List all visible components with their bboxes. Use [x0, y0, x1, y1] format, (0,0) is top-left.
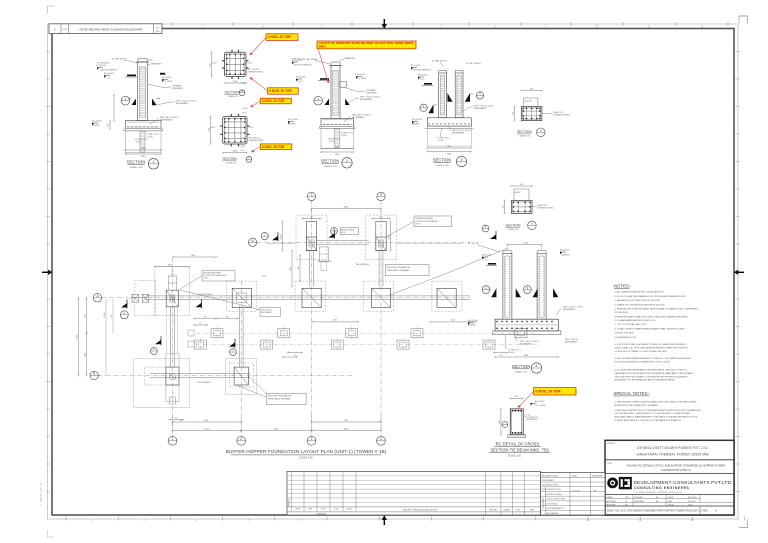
svg-text:EL(-)0.350: EL(-)0.350 — [482, 255, 492, 257]
svg-text:8-12-2011: 8-12-2011 — [688, 501, 696, 503]
svg-text:(TYP.): (TYP.) — [415, 224, 421, 226]
section 1 detail — [138, 62, 148, 121]
svg-text:(ALTERNATE): (ALTERNATE) — [352, 116, 364, 119]
svg-text:150: 150 — [171, 270, 174, 272]
svg-text:EL(-)0.600: EL(-)0.600 — [296, 77, 306, 79]
section 6 twin-wall detail — [503, 254, 512, 320]
svg-text:1500: 1500 — [344, 420, 348, 422]
svg-text:TO CLEAR EMBEDMENTS/POCKETS ET: TO CLEAR EMBEDMENTS/POCKETS ETC. — [615, 319, 657, 322]
foundation F1 at grid1/A — [155, 267, 190, 316]
svg-text:SCALE 1:25: SCALE 1:25 — [515, 370, 528, 373]
svg-text:(100 THK WRE FILL): (100 THK WRE FILL) — [413, 70, 431, 72]
svg-text:FOUNDATION (UNIT-1): FOUNDATION (UNIT-1) — [661, 468, 690, 472]
section 4 stirrup detail — [521, 106, 542, 120]
revision history table — [287, 472, 541, 516]
svg-text:APPROVED: APPROVED — [635, 500, 645, 503]
svg-text:(500): (500) — [233, 151, 238, 153]
svg-text:LAYOUT OF STIRRUPS TO BE REVIS: LAYOUT OF STIRRUPS TO BE REVISED TO SUIT… — [319, 41, 414, 45]
foundation at grid4/A — [363, 281, 393, 311]
svg-text:6. REINFORCEMENT SHALL BE LOC: 6. REINFORCEMENT SHALL BE LOCALLY ADJUST… — [615, 316, 689, 319]
svg-text:SHEAR KEY: SHEAR KEY — [151, 63, 163, 66]
svg-text:(TYP.): (TYP.) — [203, 278, 209, 280]
svg-text:STIRRUPS (S/W): STIRRUPS (S/W) — [249, 140, 264, 142]
svg-text:1: 1 — [153, 160, 155, 164]
svg-text:SCALE 1:100: SCALE 1:100 — [323, 165, 337, 168]
svg-text:2. BEFORE CONSTRUCTION OF THE: 2. BEFORE CONSTRUCTION OF THE NEW BUFFER… — [615, 409, 702, 412]
svg-text:MECH: MECH — [295, 509, 301, 511]
svg-text:2: 2 — [346, 159, 348, 163]
svg-text:11. POCKETS AS SHOWN ARE TO BE: 11. POCKETS AS SHOWN ARE TO BE KEPT WHIL… — [615, 369, 689, 372]
svg-text:EL(-)1.050: EL(-)1.050 — [292, 60, 302, 62]
svg-text:MECHANICAL: MECHANICAL — [547, 512, 559, 515]
svg-text:3: 3 — [461, 158, 463, 162]
svg-text:2 NOS. 20 TOR: 2 NOS. 20 TOR — [262, 99, 285, 103]
central cluster pads — [211, 329, 223, 338]
svg-text:B: B — [93, 372, 95, 376]
foundation at grid2/B — [226, 359, 257, 395]
svg-text:(BGWG): (BGWG) — [288, 123, 296, 125]
svg-text:DRAWN: DRAWN — [607, 496, 614, 499]
svg-text:1500: 1500 — [204, 420, 208, 422]
svg-text:07-03-2012: 07-03-2012 — [572, 491, 581, 493]
svg-text:2 NOS. 20 TOR: 2 NOS. 20 TOR — [268, 35, 292, 39]
svg-text:SECTION: SECTION — [512, 364, 531, 369]
svg-text:7. LLF = TO 9-104 AT GRID (TY: 7. LLF = TO 9-104 AT GRID (TYP.) — [615, 323, 647, 326]
svg-text:ALIGNMENT OF THE SHEAR KEY BEL: ALIGNMENT OF THE SHEAR KEY BELOW THE BAS… — [615, 379, 676, 382]
svg-text:500: 500 — [298, 267, 300, 270]
svg-text:(ALTERNATE): (ALTERNATE) — [176, 102, 188, 105]
svg-text:EL(-)0.600: EL(-)0.600 — [104, 73, 114, 75]
section 3 twin-column detail — [439, 73, 447, 118]
svg-text:SECTION TIE BEAM WKD. TB1: SECTION TIE BEAM WKD. TB1 — [490, 448, 549, 453]
svg-text:1. THE EXISTING TOWER CAGE FO: 1. THE EXISTING TOWER CAGE FOUNDATION AT… — [615, 401, 697, 404]
svg-text:90 ELLELV.209M WHICH CORRESPON: 90 ELLELV.209M WHICH CORRESPONDS TO P.L.… — [615, 362, 671, 364]
svg-text:KOLKATA MUMBAI CHENNAI: KOLKATA MUMBAI CHENNAI NEW DELHI — [634, 491, 682, 494]
svg-text:W.O. EPL/4/NEW POWER/BUFFER HO: W.O. EPL/4/NEW POWER/BUFFER HOPPER TOWER… — [621, 509, 702, 513]
svg-text:NOTED RED REV. READY FOUNDATIO: NOTED RED REV. READY FOUNDATIONS MODIFIE… — [79, 28, 142, 32]
svg-text:INSTRUMENTATION: INSTRUMENTATION — [547, 507, 565, 510]
svg-text:P.C.C.: P.C.C. — [106, 78, 112, 80]
svg-text:SCALE 1:20: SCALE 1:20 — [508, 455, 522, 458]
svg-text:(BGWG): (BGWG) — [412, 123, 420, 125]
svg-text:(1:4:8): (1:4:8) — [136, 141, 142, 143]
svg-text:(ALTERNATE): (ALTERNATE) — [160, 118, 172, 121]
svg-text:FOR TENDER ONLY: FOR TENDER ONLY — [542, 485, 560, 487]
svg-text:EXISTING FOUNDATION: EXISTING FOUNDATION — [268, 395, 292, 398]
svg-text:RELEASE STATUS: RELEASE STATUS — [542, 474, 559, 477]
svg-text:11005: 11005 — [688, 504, 693, 506]
svg-text:REV.: REV. — [517, 509, 521, 511]
svg-text:2-#8: 2-#8 — [241, 150, 245, 152]
svg-text:CHECKED: CHECKED — [635, 497, 644, 499]
svg-text:EXISTING FOUNDATION: EXISTING FOUNDATION — [387, 266, 411, 269]
svg-text:(600): (600) — [168, 265, 173, 267]
upper pedestal group grid3 — [312, 208, 382, 210]
svg-text:EL(-)2.000: EL(-)2.000 — [288, 119, 298, 121]
svg-text:DRAWN: DRAWN — [504, 508, 511, 511]
svg-text:450: 450 — [503, 206, 505, 209]
svg-text:STIRRUPS (S/W): STIRRUPS (S/W) — [554, 115, 570, 117]
svg-text:SCALE 1:25: SCALE 1:25 — [228, 95, 238, 98]
svg-text:a) PEDESTAL 40: a) PEDESTAL 40 75 50 — [615, 336, 638, 339]
svg-text:AS NOTED: AS NOTED — [688, 496, 697, 499]
yellow callout boxes — [250, 38, 266, 56]
svg-text:SECTION: SECTION — [223, 157, 238, 161]
svg-text:EL.(-)2.000: EL.(-)2.000 — [412, 119, 423, 121]
svg-text:SCALE 1:100: SCALE 1:100 — [129, 166, 143, 169]
svg-text:EL(-)0.350: EL(-)0.350 — [560, 250, 570, 252]
svg-text:FOR.: FOR. — [341, 232, 346, 234]
svg-text:2500: 2500 — [333, 320, 337, 322]
svg-text:(ALTERNATE): (ALTERNATE) — [474, 107, 486, 110]
plan bottom dims — [173, 421, 242, 423]
svg-text:2285: 2285 — [290, 267, 292, 271]
svg-text:3: 3 — [311, 193, 313, 197]
svg-text:SCALE 1:25: SCALE 1:25 — [520, 135, 530, 138]
svg-text:CIVIL: CIVIL — [335, 509, 339, 511]
svg-text:4: 4 — [380, 193, 382, 197]
svg-text:T.O. BM. (BGL): T.O. BM. (BGL) — [97, 63, 110, 65]
svg-text:DWG. NO.: DWG. NO. — [607, 509, 621, 513]
svg-text:T.O.C. BOM: T.O.C. BOM — [162, 81, 173, 83]
svg-text:9. FOR STRUCTURAL G.A. REFER: 9. FOR STRUCTURAL G.A. REFER TO DWG. NO.… — [615, 343, 687, 346]
svg-text:450: 450 — [513, 112, 515, 115]
svg-text:(100 THK WRE FILL): (100 THK WRE FILL) — [294, 65, 312, 67]
svg-text:(1:4:8): (1:4:8) — [438, 140, 444, 142]
svg-text:ON THE NEW GRID 1 THE (SUB-SOI: ON THE NEW GRID 1 THE (SUB-SOIL IS TO BE… — [615, 412, 691, 415]
svg-text:STRUCTURAL G.A. OF FLY ASH BUF: STRUCTURAL G.A. OF FLY ASH BUFFER HOPPER… — [615, 347, 689, 350]
svg-text:(BGWG): (BGWG) — [562, 254, 570, 256]
svg-text:SINGHTARAI THERMAL POWER 2X: SINGHTARAI THERMAL POWER 2X600 MW. — [636, 452, 709, 456]
svg-text:P.C.C.: P.C.C. — [298, 81, 304, 83]
svg-text:SCALE 1:50: SCALE 1:50 — [299, 457, 313, 460]
svg-text:SECTION: SECTION — [225, 91, 240, 95]
svg-text:500: 500 — [180, 420, 183, 422]
svg-text:PEDESTAL & TIE BEAM: PEDESTAL & TIE BEAM — [268, 397, 290, 400]
svg-text:(ALTERNATE): (ALTERNATE) — [360, 98, 372, 101]
svg-text:REFERENCE: REFERENCE — [543, 497, 545, 509]
svg-text:ATHENA CHATTISGARH POWER PV: ATHENA CHATTISGARH POWER PVT. LTD. — [637, 446, 709, 450]
svg-text:TITLE:: TITLE: — [607, 463, 613, 465]
svg-text:NATURE OF REVISION & DESCRIPTI: NATURE OF REVISION & DESCRIPTION — [403, 508, 438, 511]
svg-text:1575: 1575 — [85, 314, 87, 318]
svg-text:VIA 30 C/C: VIA 30 C/C — [554, 111, 564, 114]
svg-text:1950: 1950 — [85, 353, 87, 357]
svg-text:EL(-)1.050: EL(-)1.050 — [411, 65, 421, 67]
svg-text:5. REINFORCING STEEL BIG SHAL: 5. REINFORCING STEEL BIG SHALL BE HYSD B… — [615, 308, 699, 311]
svg-text:2 NOS. 20 TOR: 2 NOS. 20 TOR — [262, 145, 285, 149]
svg-text:600: 600 — [108, 124, 110, 127]
svg-text:1. ALL DIMENSION ARE IN MM. &: 1. ALL DIMENSION ARE IN MM. & LEVEL ARE … — [615, 291, 665, 294]
svg-text:FOR CONSTRUCTION: FOR CONSTRUCTION — [542, 489, 561, 491]
svg-text:(500): (500) — [233, 81, 238, 83]
svg-text:EL(-)0.049: EL(-)0.049 — [535, 401, 545, 403]
svg-text:PEDESTAL & TIE BEAM: PEDESTAL & TIE BEAM — [387, 269, 409, 272]
svg-text:RE-CEMENT: RE-CEMENT — [261, 312, 273, 314]
svg-text:SCALE: SCALE — [668, 496, 674, 499]
svg-text:JOB NO.: JOB NO. — [668, 504, 675, 506]
svg-text:500: 500 — [530, 88, 533, 90]
svg-text:(TB2/WKB2): (TB2/WKB2) — [172, 88, 183, 90]
svg-text:EL(-)0.450: EL(-)0.450 — [356, 74, 366, 76]
svg-text:APPROVED: APPROVED — [607, 503, 617, 506]
svg-text:(1:4:8): (1:4:8) — [329, 141, 335, 143]
svg-text:4: 4 — [380, 437, 382, 441]
svg-text:EL(-)2.000: EL(-)2.000 — [92, 121, 102, 123]
svg-text:(1950): (1950) — [104, 312, 106, 317]
svg-text:(STIRRUPS): (STIRRUPS) — [526, 419, 537, 421]
svg-text:600: 600 — [499, 421, 501, 424]
svg-text:(100 THK WRE FILL): (100 THK WRE FILL) — [100, 70, 118, 72]
title block — [605, 440, 734, 515]
grid bubbles — [168, 436, 177, 445]
svg-text:IS17786-2008: IS17786-2008 — [615, 312, 629, 314]
svg-text:SCALE 1:25: SCALE 1:25 — [226, 161, 236, 164]
svg-text:ANGLE GUIDE: ANGLE GUIDE — [341, 228, 355, 231]
svg-text:APPROVED: APPROVED — [607, 500, 617, 503]
svg-text:(ALTERNATE): (ALTERNATE) — [452, 131, 464, 134]
svg-text:ADEQUATE SAFETY MEASURES ARE T: ADEQUATE SAFETY MEASURES ARE TO BE TAKEN… — [615, 416, 699, 419]
svg-text:FOR: FOR — [63, 29, 68, 31]
svg-text:2. DO NOT SCALE THE DRAWING.: 2. DO NOT SCALE THE DRAWING. FOLLOW FIGU… — [615, 295, 687, 298]
svg-text:3: 3 — [311, 437, 313, 441]
svg-text:3750: 3750 — [77, 335, 79, 339]
svg-text:(BGWG): (BGWG) — [468, 324, 476, 326]
plan section flags — [121, 303, 127, 308]
svg-text:NOTES:-: NOTES:- — [614, 283, 632, 288]
svg-text:975: 975 — [111, 315, 113, 318]
svg-text:150: 150 — [199, 323, 202, 325]
svg-text:2: 2 — [240, 437, 242, 441]
svg-text:GROUTED WITH SECONDARY CONCRET: GROUTED WITH SECONDARY CONCRETE AFTER PR… — [615, 375, 690, 378]
svg-text:CHECKED: CHECKED — [489, 509, 498, 511]
grid lines — [172, 258, 174, 436]
svg-text:T.O.C. BOM: T.O.C. BOM — [356, 78, 367, 80]
svg-text:500: 500 — [310, 216, 313, 218]
svg-text:2 NOS. 20 TOR: 2 NOS. 20 TOR — [269, 89, 292, 93]
svg-text:(4)-20#: (4)-20# — [515, 192, 522, 194]
section 2 detail — [331, 65, 340, 118]
svg-text:GA AND RC DETAILS OF FLY ASH B: GA AND RC DETAILS OF FLY ASH BUFFER (TOW… — [627, 464, 725, 468]
svg-text:BUFFER HOPPER FOUNDATION LAYOU: BUFFER HOPPER FOUNDATION LAYOUT PLAN (UN… — [226, 449, 387, 455]
svg-text:IF REQD. ADEQUATE P.C.C FILLIN: IF REQD. ADEQUATE P.C.C FILLING IS TO BE… — [615, 419, 682, 422]
svg-text:REVISIONS: REVISIONS — [317, 514, 327, 516]
svg-text:EL(-)0.600: EL(-)0.600 — [418, 75, 428, 77]
svg-text:(BGWG): (BGWG) — [92, 125, 100, 127]
svg-text:500: 500 — [380, 216, 383, 218]
svg-text:TB1 (300X600): TB1 (300X600) — [197, 382, 211, 384]
svg-text:SECTION: SECTION — [517, 130, 533, 134]
svg-text:6: 6 — [536, 364, 538, 368]
svg-text:PEDESTALS FOR THE RESPECTIVE F: PEDESTALS FOR THE RESPECTIVE FOUNDATION.… — [615, 372, 694, 375]
svg-text:700: 700 — [204, 316, 207, 318]
svg-text:(ALTERNATE): (ALTERNATE) — [565, 340, 577, 343]
svg-text:(ALTERNATE): (ALTERNATE) — [520, 342, 532, 345]
svg-text:SCALE 1:25: SCALE 1:25 — [508, 228, 518, 231]
svg-text:TMG: TMG — [156, 31, 161, 33]
svg-text:500: 500 — [500, 355, 503, 357]
svg-text:500: 500 — [171, 274, 174, 276]
svg-text:ARCHITECTURAL: ARCHITECTURAL — [547, 493, 562, 496]
svg-text:VIA 30 C/C: VIA 30 C/C — [538, 204, 548, 207]
RC detail of cross section tie beam — [510, 409, 523, 435]
tie beams — [146, 295, 470, 297]
svg-text:TOP BOTTOM: TOP BOTTOM SIDE — [615, 333, 635, 335]
svg-text:EL(-)1.050: EL(-)1.050 — [97, 65, 107, 67]
svg-text:POCKET FOR SHEAR KEY: POCKET FOR SHEAR KEY — [415, 220, 439, 223]
svg-text:10. ALL ELEVATION ARE REFERRED: 10. ALL ELEVATION ARE REFERRED TO THE F.… — [615, 357, 693, 360]
centering arrows — [42, 271, 49, 273]
svg-text:(1:4:8): (1:4:8) — [509, 352, 515, 354]
svg-text:STIRRUPS (S/W): STIRRUPS (S/W) — [248, 71, 263, 73]
svg-text:SECTION: SECTION — [127, 160, 146, 165]
svg-text:2500: 2500 — [451, 320, 455, 322]
svg-text:EL(-)0.450: EL(-)0.450 — [162, 77, 172, 79]
svg-text:RC DETAIL OF CROSS: RC DETAIL OF CROSS — [496, 442, 540, 447]
svg-text:8. CLEAR COVER TO MAIN REINFO: 8. CLEAR COVER TO MAIN REINFORCEMENT SHA… — [615, 327, 686, 330]
svg-text:1: 1 — [172, 437, 174, 441]
svg-text:DWG.: DWG. — [319, 45, 327, 49]
svg-text:500: 500 — [175, 418, 178, 420]
svg-text:CIVIL & STRUCTURAL: CIVIL & STRUCTURAL — [547, 498, 566, 501]
svg-text:4. GRADE OF CONCRETE M25 AS P: 4. GRADE OF CONCRETE M25 AS PER IS:456-2… — [615, 303, 666, 306]
svg-text:STIRRUPS (S/W): STIRRUPS (S/W) — [538, 207, 554, 209]
svg-text:SPECIAL NOTES:-: SPECIAL NOTES:- — [614, 391, 651, 396]
svg-text:SCALE 1:100: SCALE 1:100 — [435, 164, 449, 167]
stirrup detail B — [223, 116, 247, 144]
svg-text:(ALTERNATE): (ALTERNATE) — [563, 308, 575, 311]
svg-text:4-T-20#: 4-T-20# — [526, 101, 533, 103]
svg-text:8 NOS. 20 TOR: 8 NOS. 20 TOR — [535, 389, 561, 393]
svg-text:T.O.C.: T.O.C. — [484, 259, 490, 261]
svg-text:ELECTRICAL: ELECTRICAL — [547, 502, 558, 505]
svg-text:(TB2/WKB2): (TB2/WKB2) — [366, 92, 377, 94]
svg-text:OF FDN. BOLTS, REFER TO STRUCT: OF FDN. BOLTS, REFER TO STRUCTURAL G.A. … — [615, 350, 668, 353]
svg-text:POCKET FOR SHEAR KEY: POCKET FOR SHEAR KEY — [203, 274, 227, 277]
svg-text:SIGNATURE: SIGNATURE — [592, 474, 604, 477]
foundation at grid3/A — [295, 281, 325, 311]
svg-text:T.O.C. BOM: T.O.C. BOM — [535, 405, 546, 407]
svg-text:7500: 7500 — [262, 276, 266, 278]
svg-text:PROJECT:: PROJECT: — [607, 443, 616, 445]
svg-text:(1:4:8): (1:4:8) — [147, 136, 153, 138]
revision strip — [49, 24, 162, 34]
svg-text:500: 500 — [294, 355, 297, 357]
svg-text:1-#16: 1-#16 — [243, 108, 248, 110]
svg-text:SECTION: SECTION — [433, 158, 452, 163]
svg-text:SHEAR KEY: SHEAR KEY — [344, 57, 356, 60]
DC logo — [607, 478, 618, 489]
svg-text:P.C.C.: P.C.C. — [420, 79, 426, 81]
svg-text:TB1 (300X600): TB1 (300X600) — [356, 264, 370, 266]
svg-text:SECTION: SECTION — [505, 223, 521, 227]
svg-text:3. FINISHED FLOOR LEVEL (FFL): 3. FINISHED FLOOR LEVEL (FFL) EL.(-)0.02… — [615, 300, 660, 302]
svg-text:50 THK. GROUT: 50 THK. GROUT — [466, 63, 482, 65]
svg-text:(1:4:8): (1:4:8) — [341, 135, 347, 137]
svg-text:REV.: REV. — [703, 510, 709, 513]
foundation at grid2/A — [227, 281, 257, 311]
svg-text:PRELIMINARY: PRELIMINARY — [542, 479, 555, 482]
svg-text:500: 500 — [520, 184, 523, 186]
foundation at grid1/B — [134, 359, 190, 408]
svg-text:300: 300 — [515, 396, 518, 398]
svg-text:DATE: DATE — [572, 474, 578, 477]
svg-text:50 THK. GROUT: 50 THK. GROUT — [432, 61, 448, 63]
svg-text:INST: INST — [309, 509, 313, 511]
svg-text:290X290X200 DEEP: 290X290X200 DEEP — [415, 218, 433, 220]
svg-text:2 - CAD FILE - DWG - A1: 2 - CAD FILE - DWG - A1 — [40, 481, 43, 505]
svg-text:ALONG WITH THE CONNECTED TIE B: ALONG WITH THE CONNECTED TIE BEAMS. — [615, 404, 659, 407]
svg-text:CONSULTING ENGINEERS: CONSULTING ENGINEERS — [634, 486, 690, 490]
section 5 stirrup detail — [511, 200, 532, 213]
release status table — [541, 473, 606, 515]
svg-text:(2285): (2285) — [281, 234, 283, 239]
stirrup detail A — [225, 52, 247, 76]
svg-text:700: 700 — [226, 316, 229, 318]
svg-text:SECTION: SECTION — [321, 159, 340, 164]
